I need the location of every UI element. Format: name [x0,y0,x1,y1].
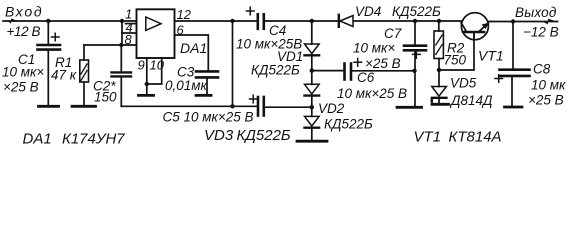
wire base wire to VT1 [439,34,474,70]
capacitor C5 [250,95,264,115]
wire DA1 pin12 output rail [175,20,257,22]
svg-text:×25 В: ×25 В [3,80,39,95]
svg-text:VD4: VD4 [355,4,381,19]
svg-text:Д814Д: Д814Д [449,93,493,108]
ground VD5 chassis bar [432,103,449,106]
ground C3 chassis bar [196,94,211,97]
node VD2-VD3 junction [310,105,314,109]
diode VD3 [305,116,320,140]
wire pin4 notch [126,23,137,25]
svg-text:×25 В: ×25 В [528,93,564,108]
svg-text:6: 6 [177,23,185,38]
ground R1 chassis bar [72,105,96,108]
wire C5 to VD2 junction [265,106,312,108]
svg-text:47 к: 47 к [51,68,77,83]
capacitor C2 [112,45,132,106]
node C7 junction [413,19,417,23]
node pin9-pin10 junction [145,82,149,86]
svg-text:10 мк×: 10 мк× [2,65,44,80]
svg-text:КД522Б: КД522Б [251,63,300,78]
svg-text:DA1: DA1 [23,131,52,148]
wire VD1 junction to C6 [312,70,343,72]
node pin1/pin4 junction [120,19,124,23]
svg-text:КД522Б: КД522Б [392,4,441,19]
resistor R1 [80,45,137,105]
svg-text:КД522Б: КД522Б [237,127,291,144]
svg-text:×25 В: ×25 В [365,56,401,71]
node output arrow [542,19,557,25]
node C7 bottom junction [412,69,416,73]
node VD1 junction [310,19,314,23]
ground VD3 chassis bar [297,140,327,143]
wire drop to lower bus [232,21,234,106]
node bus drop junction [230,104,234,108]
diode VD2 [305,84,320,116]
svg-text:10 мк×: 10 мк× [353,41,395,56]
svg-text:150: 150 [94,90,117,105]
wire lower bus C2 to C5 [121,105,257,107]
wire DA1 pin9 [146,58,148,94]
svg-text:10 мк: 10 мк [531,78,566,93]
op-amp DA1 triangle [146,17,161,30]
svg-text:VT1: VT1 [478,48,504,64]
svg-text:9: 9 [138,58,145,73]
svg-text:Вход: Вход [5,4,43,20]
wire output [488,21,557,23]
capacitor C8 [495,22,530,106]
wire DA1 pin6 to C3 [175,35,209,70]
svg-text:VD3: VD3 [204,127,234,144]
node R2 junction [437,19,441,23]
wire input rail [3,20,137,22]
svg-text:VT1: VT1 [414,129,442,146]
wire DA1 pin10 [147,58,162,84]
svg-text:С5 10 мк×25 В: С5 10 мк×25 В [163,110,254,125]
svg-text:+12 В: +12 В [7,24,41,39]
resistor R2 [434,21,443,70]
svg-text:VD5: VD5 [450,76,477,91]
diode VD5 zener [432,70,447,103]
node C1 junction [46,19,50,23]
op-amp DA1 box [137,9,175,58]
node VD1-VD2 junction [310,68,314,72]
node C8 junction [511,19,515,23]
capacitor C6 [345,59,362,80]
svg-text:С6: С6 [357,70,375,85]
ground C7 chassis bar [397,106,422,109]
capacitor C7 [404,21,426,106]
ground C8 chassis bar [505,106,523,109]
svg-text:DA1: DA1 [180,40,207,56]
wire pin8 notch edge [121,33,123,45]
wire C6 to C7 [352,70,414,72]
node C5 drop junction [230,19,234,23]
svg-text:750: 750 [444,53,467,68]
svg-text:10 мк×25 В: 10 мк×25 В [337,86,407,101]
svg-text:VD2: VD2 [318,101,345,116]
node input arrow [8,18,18,23]
capacitor C3 [196,71,218,94]
svg-text:10: 10 [150,58,165,73]
ground C1 chassis bar [39,105,59,108]
ground DA1 pins chassis bar [139,94,154,97]
svg-text:8: 8 [125,32,133,47]
wire pin4 drop [122,21,137,33]
wire C4 to VD4 [265,20,338,22]
node C2 junction on pin8 wire [119,43,123,47]
capacitor C4 [247,7,264,29]
svg-text:С8: С8 [533,62,551,77]
svg-text:12: 12 [177,7,192,22]
svg-text:С7: С7 [384,26,402,41]
svg-text:К174УН7: К174УН7 [62,131,125,148]
svg-text:Выход: Выход [515,5,557,20]
svg-text:КТ814А: КТ814А [449,129,502,146]
svg-text:−12 В: −12 В [523,25,559,40]
diode VD4 [339,15,353,27]
diode VD1 [305,21,320,84]
transistor VT1 [461,13,489,40]
capacitor C1 [38,21,61,105]
svg-text:КД522Б: КД522Б [324,117,373,132]
svg-text:0,01мк: 0,01мк [165,78,208,93]
wire VD4 to VT1 [354,20,462,22]
node R2-VD5-base junction [437,68,441,72]
